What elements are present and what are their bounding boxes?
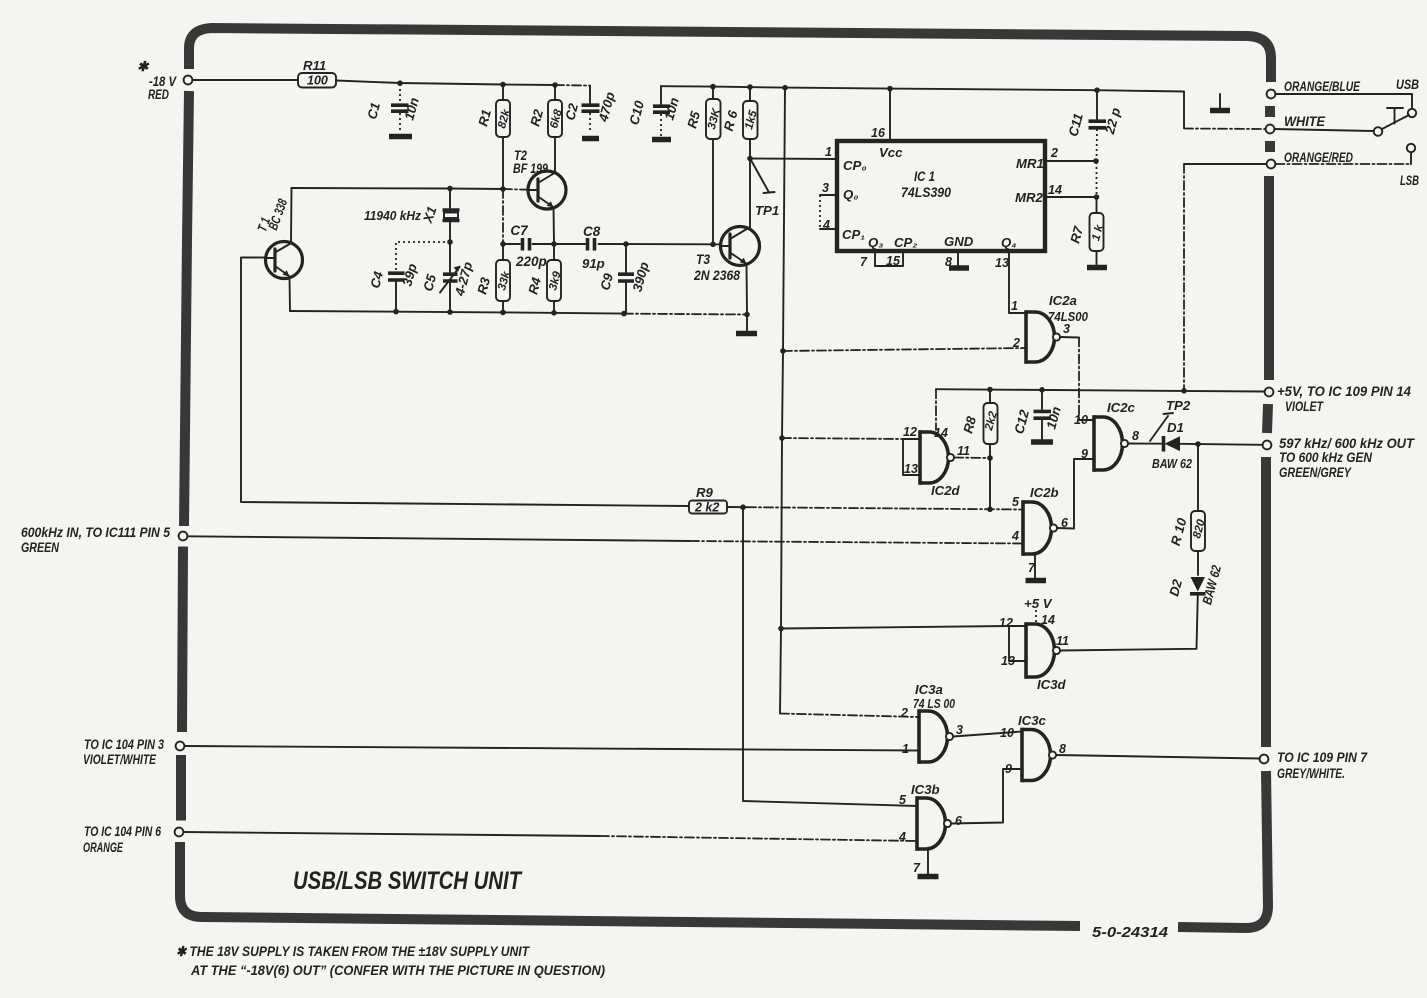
svg-text:8: 8: [1059, 742, 1066, 756]
svg-text:ORANGE/RED: ORANGE/RED: [1284, 150, 1353, 165]
node ORANGE/RED terminal: [1267, 160, 1276, 169]
svg-text:MR2: MR2: [1015, 190, 1044, 205]
svg-text:1: 1: [902, 742, 909, 756]
wire IC3c output to terminal R6: [1056, 755, 1259, 759]
svg-text:IC2b: IC2b: [1030, 485, 1059, 500]
svg-text:1: 1: [825, 145, 832, 159]
svg-text:10: 10: [1000, 726, 1014, 740]
node junction R10 top: [1195, 441, 1201, 447]
wire D1 to 597kHz terminal: [1180, 444, 1262, 445]
node junctions on top rail: [397, 80, 1100, 93]
crystal X1 value label: [364, 204, 440, 225]
resistor R3: [474, 245, 513, 313]
svg-text:22 p: 22 p: [1102, 106, 1124, 136]
svg-text:R 6: R 6: [721, 108, 741, 132]
wire WHITE to switch blade: [1275, 129, 1374, 131]
wire -18V feed to R11: [193, 79, 299, 81]
svg-text:600kHz IN, TO IC111 PIN 5: 600kHz IN, TO IC111 PIN 5: [21, 525, 170, 540]
wire ORANGE/BLUE to USB contact: [1276, 94, 1413, 108]
border frame: [180, 28, 1271, 928]
svg-text:2N 2368: 2N 2368: [693, 268, 740, 283]
resistor R9: [689, 485, 727, 515]
node junctions on bottom rail: [393, 309, 750, 318]
+5V TO IC109 PIN14 label: [1277, 384, 1411, 414]
wire D2 down and left to IC3d output: [1060, 595, 1198, 651]
svg-text:3: 3: [822, 181, 829, 195]
diode D1 BAW62: [1152, 420, 1193, 471]
svg-text:R1: R1: [475, 108, 494, 128]
svg-text:X1: X1: [420, 204, 440, 225]
wire oscillator bottom rail: [290, 311, 624, 314]
capacitor C7: [510, 223, 546, 269]
svg-text:74 LS 00: 74 LS 00: [913, 696, 956, 711]
resistor R10: [1168, 444, 1208, 575]
ground IC2b pin7: [1026, 554, 1047, 581]
wire R8 bottom node down to IC2b pin5 line: [989, 458, 991, 509]
node junction MR2: [1094, 194, 1100, 200]
ORANGE/BLUE USB label: [1284, 77, 1419, 94]
capacitor C11: [1065, 91, 1123, 197]
TO IC104 PIN3 label: [83, 737, 164, 767]
svg-text:12: 12: [999, 616, 1013, 630]
svg-text:R2: R2: [527, 107, 546, 128]
svg-text:R5: R5: [684, 109, 703, 130]
transistor T2: [528, 171, 566, 209]
ground near ORANGE/BLUE: [1210, 94, 1230, 111]
600kHz IN label: [21, 525, 170, 555]
-18V RED label: [137, 59, 177, 102]
svg-text:39p: 39p: [399, 262, 419, 288]
svg-text:C10: C10: [626, 99, 647, 127]
svg-text:BAW 62: BAW 62: [1199, 563, 1224, 606]
node WHITE terminal: [1266, 125, 1275, 134]
wire T3 emitter to ground: [746, 264, 749, 331]
wire IC1 Vcc pin16: [889, 89, 891, 141]
svg-text:11: 11: [1056, 634, 1069, 648]
wire vertical bus from top rail: [780, 88, 785, 714]
node bus junction IC3d pin12: [778, 626, 784, 632]
svg-text:C4: C4: [367, 269, 386, 290]
svg-text:IC2c: IC2c: [1107, 400, 1136, 415]
node junction R8 bottom: [987, 455, 993, 461]
transistor T3: [721, 227, 760, 266]
svg-text:C8: C8: [583, 224, 601, 239]
svg-text:✱ THE 18V SUPPLY IS TAKEN FRO: ✱ THE 18V SUPPLY IS TAKEN FROM THE ±18V …: [176, 944, 531, 959]
gate IC3d: [999, 616, 1069, 692]
svg-text:C12: C12: [1011, 408, 1032, 436]
node TO IC104 PIN3 terminal: [176, 742, 185, 751]
IC1 74LS390 body: [837, 141, 1045, 251]
resistor R2: [527, 85, 565, 171]
wire T1 emitter down to bottom rail: [289, 277, 292, 312]
svg-text:BC 338: BC 338: [265, 196, 290, 232]
svg-text:USB: USB: [1396, 77, 1419, 92]
test point TP2: [1150, 398, 1191, 441]
wire CP0 pin1 line: [750, 158, 837, 161]
svg-text:+5V, TO IC 109 PIN 14: +5V, TO IC 109 PIN 14: [1277, 384, 1411, 399]
node 600kHz terminal: [179, 532, 188, 541]
svg-text:VIOLET/WHITE: VIOLET/WHITE: [83, 752, 157, 767]
svg-text:5-0-24314: 5-0-24314: [1092, 924, 1169, 941]
gate IC3b: [898, 782, 963, 875]
597kHz OUT label: [1279, 436, 1416, 480]
svg-text:R7: R7: [1067, 224, 1086, 245]
svg-text:C2: C2: [562, 101, 581, 122]
svg-text:2: 2: [900, 706, 908, 720]
svg-text:14: 14: [1048, 183, 1062, 197]
node junction X1 bottom: [447, 239, 453, 245]
svg-text:TO IC 104 PIN 6: TO IC 104 PIN 6: [84, 824, 161, 839]
svg-text:10n: 10n: [661, 96, 681, 122]
svg-text:4: 4: [1011, 529, 1019, 543]
svg-text:74LS390: 74LS390: [901, 185, 951, 200]
svg-text:4-27p: 4-27p: [452, 260, 476, 298]
svg-text:1: 1: [1011, 299, 1018, 313]
wire IC1 Q4 pin13 down to IC2a pin1: [1009, 251, 1026, 313]
node -18V terminal: [184, 76, 193, 85]
svg-text:Q₀: Q₀: [843, 187, 858, 202]
svg-text:AT THE “-18V(6) OUT” (CONFER: AT THE “-18V(6) OUT” (CONFER WITH THE PI…: [190, 963, 605, 978]
transistor T1: [266, 242, 303, 279]
wire +5V rail: [936, 389, 1265, 391]
wire IC2b output to IC2c pin9: [1057, 459, 1094, 529]
wire top rail to WHITE feed corner: [1183, 92, 1185, 128]
wire dashed branch to C4: [396, 242, 450, 271]
switch blade and actuator mark: [1382, 108, 1409, 129]
node TO IC104 PIN6 terminal: [175, 828, 184, 837]
svg-text:3: 3: [1063, 322, 1070, 336]
capacitor C10: [626, 86, 682, 139]
wire 600kHz line to IC2b pin4: [188, 536, 1024, 543]
wire line to T3 base: [713, 243, 721, 245]
wire vertical ORANGE/RED to +5V rail: [1183, 164, 1185, 390]
svg-text:MR1: MR1: [1016, 156, 1044, 171]
svg-text:6: 6: [955, 814, 963, 828]
ground IC1 GND pin8: [949, 251, 969, 268]
wire dash-dot R1 bottom to C7 node: [502, 189, 504, 244]
resistor R4: [525, 245, 564, 313]
node +5V terminal: [1265, 388, 1274, 397]
svg-text:2: 2: [1012, 336, 1020, 350]
resistor R5: [684, 87, 723, 244]
gate IC2d: [903, 425, 970, 498]
node ORANGE/BLUE terminal: [1267, 90, 1276, 99]
svg-text:V​cc: V​cc: [879, 145, 903, 160]
wire oscillator top rail: [292, 188, 504, 189]
svg-text:LSB: LSB: [1400, 173, 1419, 188]
svg-text:11940 kHz: 11940 kHz: [364, 208, 421, 223]
node junction R1 bottom / T2 base: [500, 186, 506, 192]
svg-text:11: 11: [957, 444, 970, 458]
svg-text:R9: R9: [696, 485, 714, 500]
wire bottom rail dash-dot right part: [624, 313, 747, 316]
svg-text:GND: GND: [944, 234, 974, 249]
svg-text:TP2: TP2: [1166, 398, 1191, 413]
svg-text:R11: R11: [303, 58, 326, 73]
transistor T2 label: [513, 148, 548, 176]
svg-text:7: 7: [913, 861, 921, 875]
svg-text:8: 8: [1132, 429, 1139, 443]
ground R7 bottom: [1087, 265, 1107, 271]
wire IC2a output to IC2c pin10: [1060, 337, 1094, 420]
svg-text:CP₁: CP₁: [842, 227, 865, 242]
svg-text:C1: C1: [364, 101, 383, 121]
svg-text:4: 4: [898, 830, 906, 844]
svg-text:TP1: TP1: [755, 203, 779, 218]
svg-text:D1: D1: [1167, 420, 1184, 435]
svg-text:Q₄: Q₄: [1001, 235, 1017, 250]
svg-text:D2: D2: [1166, 577, 1185, 598]
ground IC3b pin7: [918, 849, 939, 877]
wire IC2d pin12 dash-dot from bus: [782, 438, 903, 439]
wire T2 base dash-dot: [503, 188, 528, 191]
svg-text:IC 1: IC 1: [914, 169, 935, 184]
svg-text:10n: 10n: [401, 96, 421, 122]
ground T3 emitter: [736, 331, 757, 337]
capacitor C1: [364, 84, 422, 137]
wire R9 branch down to IC3b pin5: [743, 507, 917, 806]
node TO IC109 PIN7 terminal: [1260, 755, 1269, 764]
svg-text:BF 199: BF 199: [513, 161, 548, 176]
svg-text:16: 16: [871, 126, 886, 140]
wire IC3d tied-input bracket: [1009, 626, 1026, 661]
wire +5V rail corner down to IC2d pin14: [935, 389, 937, 430]
svg-text:C9: C9: [597, 271, 616, 292]
wire IC1 Q0-CP1 feedback bracket: [820, 195, 837, 229]
wire ORANGE/RED to LSB contact: [1276, 163, 1412, 165]
wire IC3a pin1 from terminal L3: [185, 746, 920, 751]
svg-text:7: 7: [860, 255, 868, 269]
svg-text:WHITE: WHITE: [1284, 114, 1326, 129]
svg-text:TO IC 109 PIN 7: TO IC 109 PIN 7: [1277, 750, 1368, 765]
svg-text:USB/LSB SWITCH UNIT: USB/LSB SWITCH UNIT: [293, 867, 523, 895]
diode D2 BAW62: [1166, 563, 1224, 606]
wire IC2a pin2 dash-dot: [783, 348, 1026, 351]
svg-text:BAW 62: BAW 62: [1152, 456, 1193, 471]
resistor R8: [960, 390, 1000, 459]
svg-text:IC3b: IC3b: [911, 782, 940, 797]
wire T3 collector: [749, 159, 751, 229]
gate IC3a: [900, 682, 963, 764]
wire IC3a pin2 dashed from bus corner: [780, 714, 919, 718]
svg-text:597 kHz/ 600 kHz OUT: 597 kHz/ 600 kHz OUT: [1279, 436, 1416, 451]
node junctions on +5V rail: [987, 387, 1187, 394]
svg-text:ORANGE/BLUE: ORANGE/BLUE: [1284, 79, 1361, 94]
svg-text:13: 13: [995, 256, 1009, 270]
svg-text:R4: R4: [525, 275, 544, 296]
svg-text:470p: 470p: [595, 90, 618, 124]
wire IC2d tied-input bracket: [903, 439, 920, 475]
svg-text:VIOLET: VIOLET: [1285, 399, 1324, 414]
svg-text:10: 10: [1074, 413, 1088, 427]
wire T1 base to R9 line: [241, 258, 689, 507]
svg-text:IC3d: IC3d: [1037, 677, 1067, 692]
wire WHITE feed dash-dot: [1184, 128, 1265, 131]
wire top supply rail: [336, 81, 555, 86]
TO IC109 PIN7 label: [1277, 750, 1368, 781]
wire MR1 stub: [1045, 160, 1096, 162]
capacitor C2: [562, 86, 618, 139]
node bus junction IC2d pin12: [779, 435, 785, 441]
gate IC3c: [1000, 713, 1066, 782]
wire IC2d output to R8 bottom node: [954, 457, 990, 460]
svg-text:IC3a: IC3a: [915, 682, 943, 697]
capacitor C4: [367, 262, 420, 312]
resistor R7: [1067, 197, 1106, 265]
test point TP1: [752, 161, 780, 218]
svg-text:Q₃: Q₃: [868, 235, 883, 250]
capacitor C9: [597, 245, 652, 314]
node switch blade pivot: [1374, 127, 1383, 136]
node junction on pin5 line: [987, 507, 993, 513]
crystal X1: [443, 189, 460, 242]
svg-text:ORANGE: ORANGE: [83, 840, 124, 855]
svg-text:T3: T3: [696, 252, 710, 267]
svg-text:2 k2: 2 k2: [694, 501, 719, 515]
wire IC104 PIN6 line to IC3b pin4: [184, 832, 918, 841]
node 597kHz terminal: [1263, 441, 1272, 450]
transistor T3 label: [693, 252, 740, 283]
wire IC3d pin12 from bus: [781, 626, 1009, 629]
capacitor C5 trimmer: [420, 243, 475, 313]
node USB switch contact: [1408, 109, 1416, 117]
resistor R1: [475, 85, 513, 189]
+5V label IC3d pin14: [1024, 596, 1055, 627]
svg-text:R 10: R 10: [1168, 516, 1190, 547]
ORANGE/RED LSB label: [1284, 150, 1419, 188]
svg-text:✱: ✱: [137, 59, 150, 74]
resistor R11: [298, 58, 336, 88]
svg-text:IC3c: IC3c: [1018, 713, 1047, 728]
svg-text:13: 13: [904, 462, 918, 476]
svg-text:IC2a: IC2a: [1049, 293, 1077, 308]
svg-text:GREEN/GREY: GREEN/GREY: [1279, 465, 1353, 480]
op-amp gate IC2a 74LS00: [1011, 293, 1089, 364]
svg-text:GREEN: GREEN: [21, 540, 59, 555]
resistor R6: [721, 87, 760, 158]
svg-text:C7: C7: [510, 223, 529, 238]
svg-text:5: 5: [1012, 495, 1020, 509]
svg-text:CP₂: CP₂: [894, 235, 917, 250]
svg-text:CP₀: CP₀: [843, 158, 867, 173]
node junctions on C7/C8 line: [500, 241, 716, 247]
svg-text:3: 3: [956, 723, 963, 737]
wire C7/C8 line: [503, 243, 713, 245]
node junction R9 branch: [740, 504, 746, 510]
svg-text:+5 V: +5 V: [1024, 596, 1053, 611]
gate IC2c 74LS00: [1074, 400, 1139, 472]
svg-text:100: 100: [307, 74, 328, 88]
svg-text:RED: RED: [148, 87, 169, 102]
svg-text:12: 12: [903, 425, 917, 439]
svg-text:TO IC 104 PIN 3: TO IC 104 PIN 3: [84, 737, 164, 752]
svg-text:2: 2: [1050, 146, 1058, 160]
svg-text:TO 600 kHz GEN: TO 600 kHz GEN: [1279, 450, 1372, 465]
node junction R6 bottom: [747, 156, 753, 162]
svg-text:R8: R8: [960, 414, 979, 435]
svg-text:390p: 390p: [630, 260, 652, 293]
svg-text:R3: R3: [474, 275, 493, 296]
wire IC2c output to D1: [1128, 443, 1161, 445]
node bus junction IC2a pin2: [780, 348, 786, 354]
wire IC3b output to IC3c pin9: [951, 769, 1022, 824]
wire T2 emitter down: [553, 208, 556, 245]
wire R9 output to IC2b pin5: [727, 506, 747, 508]
wire ORANGE/RED left to vertical: [1184, 163, 1267, 165]
IC1 pin numbers: [822, 126, 1062, 270]
svg-text:91p: 91p: [582, 256, 605, 271]
svg-text:10n: 10n: [1043, 405, 1063, 431]
wire T1 collector up to oscillator rail: [290, 188, 293, 243]
svg-text:220p: 220p: [515, 254, 547, 269]
wire IC3a output to IC3c pin10: [953, 732, 1022, 737]
node LSB switch contact: [1407, 144, 1415, 152]
wire MR2 stub: [1045, 196, 1096, 198]
svg-text:C5: C5: [420, 272, 439, 293]
svg-text:C11: C11: [1065, 112, 1085, 138]
svg-text:GREY/WHITE.: GREY/WHITE.: [1277, 766, 1345, 781]
gate IC2b: [1011, 485, 1069, 575]
wire IC1 Q3-CP2 bracket: [875, 251, 903, 266]
transistor T1 label: [254, 196, 290, 233]
node junction MR1: [1093, 158, 1099, 164]
capacitor C8: [582, 224, 605, 271]
TO IC104 PIN6 label: [83, 824, 161, 855]
svg-text:IC2d: IC2d: [931, 483, 961, 498]
node junction crystal top: [447, 186, 453, 192]
capacitor C12: [1011, 390, 1064, 442]
